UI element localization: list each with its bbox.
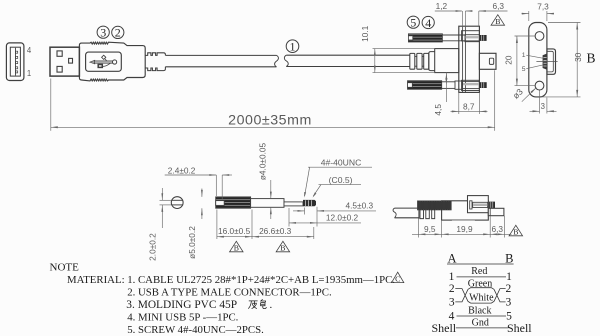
dimension 19,9 [442,216,491,238]
svg-text:7,3: 7,3 [537,1,549,11]
svg-text:2000±35mm: 2000±35mm [228,112,312,128]
svg-text:1,2: 1,2 [436,1,448,11]
revision flag B top view [509,225,523,236]
wiring column header B [505,252,513,266]
wire shell-shell Gnd [431,317,532,334]
svg-text:1: 1 [27,69,31,78]
svg-text:4. MINI USB 5P -—1PC.: 4. MINI USB 5P -—1PC. [127,312,238,324]
svg-text:12.0±0.2: 12.0±0.2 [326,213,359,223]
svg-text:A: A [447,252,456,266]
wire 4-5 Black [449,305,513,322]
screw neck detail [284,202,303,206]
svg-text:3. MOLDING PVC 45P: 3. MOLDING PVC 45P [126,299,237,311]
shell hole small [69,58,73,63]
upper screw boss [462,31,480,41]
svg-text:2: 2 [449,283,455,295]
revision flag B detail left [230,241,244,252]
mini USB molding neck [435,49,459,73]
svg-text:19,9: 19,9 [456,224,473,234]
top view cable [393,208,419,218]
svg-text:Shell: Shell [507,321,532,335]
dimension 10.1 [360,25,435,72]
svg-text:B: B [495,17,500,26]
screw end view [171,197,183,209]
dimension 16.0±0.5 [217,210,252,240]
svg-text:3: 3 [449,296,455,308]
svg-text:26.6±0.3: 26.6±0.3 [259,226,292,236]
svg-text:Gnd: Gnd [472,317,489,328]
mounting hole top [535,32,544,41]
top view screw [470,201,495,209]
dimension 9,5 [412,219,442,238]
callout 1 [286,39,299,53]
svg-text:ø4.0±0.05: ø4.0±0.05 [257,142,267,180]
svg-text:MATERIAL:: MATERIAL: [67,274,125,286]
header underline [447,263,514,265]
cable left segment [165,55,278,66]
screw lower knurled head [408,81,442,90]
svg-text:9,5: 9,5 [424,224,436,234]
view label B [586,50,595,65]
svg-text:2: 2 [115,26,121,40]
shell hole lower [57,66,62,72]
label C0.5 chamfer [313,175,361,198]
NOTE heading [50,262,80,274]
svg-text:3: 3 [506,296,512,308]
dimension 2.4±0.2 slot depth [165,165,232,199]
svg-text:30: 30 [573,52,583,62]
pin label 1 [27,69,31,78]
svg-text:6,3: 6,3 [493,1,505,11]
svg-text:B: B [234,244,239,253]
callout 4 [422,16,434,30]
USB A plug metal shell [50,47,79,76]
dimension 2.0±0.2 slot width [147,188,171,261]
wire 2-2 Green / 3-3 White twisted pair [449,279,512,309]
lower screw threaded tip [479,82,486,88]
top view screw boss [468,196,489,213]
svg-text:10.1: 10.1 [360,25,370,42]
shell hole upper [57,51,62,56]
callout 2 [112,26,124,40]
dimension 8,7 [451,92,488,114]
svg-text:8,7: 8,7 [463,102,475,112]
svg-text:5: 5 [522,66,526,73]
svg-text:2: 2 [506,283,512,295]
dimension 30 [541,23,583,97]
mini USB receptacle front view [543,49,556,74]
svg-text:4,5: 4,5 [433,104,443,116]
centerline through receptacle [536,61,557,63]
svg-text:4.5±0.3: 4.5±0.3 [345,200,373,210]
svg-text:Red: Red [471,266,487,277]
svg-text:4#-40UNC: 4#-40UNC [321,157,362,167]
dimension 7,3 [522,1,555,21]
dimension 12.0±0.2 [289,207,361,227]
svg-text:5. SCREW 4#-40UNC—2PCS.: 5. SCREW 4#-40UNC—2PCS. [127,324,264,336]
mini USB molded body [459,26,480,92]
pin label 4 [27,46,32,55]
mounting hole bottom [535,81,544,90]
dimension ø5.0±0.2 [187,189,203,259]
USB A receptacle front view outer shell [6,43,24,81]
pin 5 label [522,65,544,73]
svg-text:1. CABLE UL2725 28#*1P+24#*2C+: 1. CABLE UL2725 28#*1P+24#*2C+AB L=1935m… [127,274,395,286]
svg-text:1: 1 [522,52,526,59]
dimension 4.5±0.3 [293,200,376,214]
top view gray strip [452,219,475,221]
mini USB relief collar [429,52,435,71]
logo panel [86,52,122,71]
screw thread detail [303,200,316,206]
svg-text:2. USB A TYPE MALE CONNECTOR—1: 2. USB A TYPE MALE CONNECTOR—1PC. [127,287,331,299]
svg-text:.: . [270,299,273,311]
svg-text:Black: Black [468,305,491,316]
svg-text:1: 1 [290,39,296,53]
dimension 6,3 side view [479,1,508,26]
material list [67,274,395,336]
top view molded body [442,201,489,220]
svg-text:6,3: 6,3 [492,224,504,234]
molded body of USB A plug [79,42,145,81]
revision flag B top [491,15,505,26]
screw head knurled detail [216,197,251,208]
dimension 1,2 plate thickness [435,1,473,30]
dimension 3 [530,91,557,114]
strain relief of USB A plug [145,53,165,71]
svg-text:B: B [280,244,285,253]
USB A receptacle front view inner opening [10,47,20,76]
top view relief ribs [419,210,435,219]
wiring column header A [447,252,456,266]
svg-text:White: White [469,293,494,304]
dimension 2000±35mm [51,70,495,131]
bracket plate front view [529,23,547,97]
dimension 4,5 side view [433,73,447,116]
lower screw shank [442,81,480,89]
USB A receptacle contacts [16,48,18,76]
svg-text:4: 4 [27,46,32,55]
hanzi gray color [248,299,266,309]
callout 3 [97,25,109,39]
lower screw boss [462,80,480,90]
upper screw shank [442,35,479,42]
svg-text:1: 1 [506,271,512,283]
USB trident logo [90,55,117,67]
bracket plate edges in side view [463,26,466,92]
dimension ø4.0±0.05 [257,142,271,219]
top view knurled screw head [418,201,452,210]
dimension ø3 [511,86,537,101]
screw 5 upper knurled head [408,34,442,42]
dimension 26.6±0.3 [252,226,314,239]
svg-text:B: B [586,50,595,65]
svg-text:C: C [395,274,400,283]
svg-text:3: 3 [541,102,545,111]
svg-text:2.4±0.2: 2.4±0.2 [168,165,196,175]
revision flag B detail right [276,241,290,252]
svg-text:B: B [505,252,513,266]
svg-text:2.0±0.2: 2.0±0.2 [147,233,157,261]
mini USB plug tongue [479,53,496,69]
svg-text:Shell: Shell [431,321,456,335]
svg-text:(C0.5): (C0.5) [329,175,353,185]
svg-text:20: 20 [504,55,514,65]
upper screw threaded tip [479,35,486,41]
svg-text:16.0±0.5: 16.0±0.5 [218,226,251,236]
wire 1-1 Red [449,266,513,283]
svg-text:NOTE: NOTE [50,262,80,274]
pin 1 label [522,52,544,59]
svg-text:4: 4 [425,16,431,30]
cable break right segment [284,55,409,66]
mini USB strain relief ribs [410,53,429,69]
top view connector tongue [488,208,504,215]
svg-text:5: 5 [410,15,416,29]
revision flag C note [392,272,404,283]
svg-text:B: B [513,228,518,237]
svg-text:1: 1 [449,271,455,283]
screw shank detail [251,199,284,208]
dimension 20 [504,36,535,86]
svg-text:3: 3 [100,25,106,39]
dimension 6,3 top view [490,216,511,238]
callout 5 [407,15,419,29]
label 4#-40UNC [304,157,372,197]
svg-text:ø5.0±0.2: ø5.0±0.2 [187,226,197,259]
